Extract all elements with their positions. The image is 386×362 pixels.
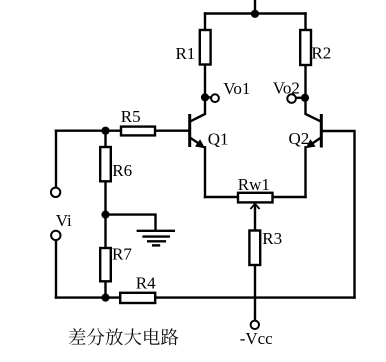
svg-text:Q2: Q2 <box>289 129 310 148</box>
svg-text:R5: R5 <box>121 107 141 126</box>
svg-text:R3: R3 <box>262 229 282 248</box>
svg-text:Vo1: Vo1 <box>223 79 250 98</box>
svg-text:R2: R2 <box>311 44 331 63</box>
svg-text:R4: R4 <box>136 273 156 292</box>
svg-text:Vi: Vi <box>56 211 72 230</box>
svg-text:Rw1: Rw1 <box>238 175 270 194</box>
svg-text:Q1: Q1 <box>208 129 229 148</box>
svg-text:R6: R6 <box>112 161 132 180</box>
svg-text:-Vcc: -Vcc <box>240 329 273 348</box>
svg-text:Vo2: Vo2 <box>273 79 300 98</box>
svg-text:R7: R7 <box>112 244 132 263</box>
svg-text:R1: R1 <box>175 44 195 63</box>
